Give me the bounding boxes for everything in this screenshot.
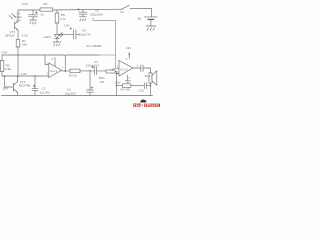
battery GB 9V	[138, 9, 158, 27]
resistor R2	[0, 55, 11, 76]
capacitor C1	[32, 76, 50, 96]
op-amp IC1-1	[46, 58, 64, 78]
svg-text:C10: C10	[138, 89, 144, 93]
svg-text:100µ/16V: 100µ/16V	[90, 13, 103, 17]
svg-text:.55V: .55V	[2, 86, 8, 90]
watermark red text	[133, 100, 160, 107]
capacitor C6	[15, 10, 38, 23]
wire pin4 ground	[125, 75, 130, 82]
wire output IC1-1 with resistor R3	[62, 69, 95, 77]
svg-text:6.3V: 6.3V	[22, 2, 28, 6]
svg-text:S1: S1	[120, 10, 124, 14]
wire V+ feed to IC1-2	[93, 18, 119, 69]
ground LED1	[53, 42, 61, 46]
resistor R5	[55, 10, 66, 34]
svg-text:1.4V: 1.4V	[21, 72, 27, 76]
capacitor C7 output	[133, 65, 151, 72]
svg-text:R6: R6	[44, 2, 48, 6]
svg-text:IC1-2: IC1-2	[121, 67, 128, 71]
wire pin6 +9V flag	[126, 46, 131, 61]
svg-text:IC1-1: IC1-1	[50, 69, 57, 73]
svg-text:1k: 1k	[41, 13, 45, 17]
svg-text:1.9V: 1.9V	[64, 24, 70, 28]
svg-text:4.5V: 4.5V	[1, 51, 7, 55]
svg-text:470k: 470k	[5, 67, 12, 71]
svg-text:3.2V: 3.2V	[22, 33, 28, 37]
svg-text:9V: 9V	[138, 17, 143, 21]
wire feedback net 4.5V	[2, 54, 116, 71]
transistor VT2	[4, 75, 30, 95]
svg-text:10k: 10k	[100, 80, 105, 84]
svg-text:4: 4	[129, 77, 131, 80]
resistor R6	[40, 2, 53, 17]
capacitor C4	[57, 27, 91, 38]
svg-text:100µ/10V: 100µ/10V	[86, 64, 99, 68]
ground C6	[30, 20, 37, 24]
op-amp IC1-2 LM386	[114, 60, 138, 84]
svg-text:2: 2	[46, 62, 48, 65]
capacitor C5	[78, 8, 103, 16]
ground battery	[146, 26, 156, 31]
capacitor C2	[65, 70, 94, 96]
svg-text:IC1-LM386: IC1-LM386	[86, 44, 102, 48]
svg-text:10k: 10k	[22, 43, 27, 47]
svg-text:6: 6	[126, 58, 128, 61]
potentiometer RP1	[99, 68, 117, 95]
svg-text:R4 47k: R4 47k	[121, 88, 131, 92]
svg-text:BC547B: BC547B	[19, 83, 30, 87]
svg-text:BP103: BP103	[6, 34, 15, 38]
resistor R1	[16, 30, 27, 76]
svg-text:5: 5	[137, 65, 139, 68]
svg-text:3: 3	[46, 73, 48, 76]
LED LED1	[44, 33, 64, 42]
wire zobel R4 C10	[116, 83, 152, 93]
speaker BL1	[145, 68, 157, 96]
svg-text:1µ/10V: 1µ/10V	[40, 90, 50, 94]
svg-text:+9V: +9V	[126, 46, 131, 50]
svg-text:8: 8	[52, 58, 54, 61]
svg-text:LED1: LED1	[44, 35, 52, 39]
svg-text:10µ/10V: 10µ/10V	[65, 92, 76, 96]
wire top rail	[18, 9, 152, 11]
wire input net 1.4V	[2, 75, 49, 77]
svg-text:BL1: BL1	[145, 74, 151, 78]
svg-text:4.7k: 4.7k	[60, 17, 66, 21]
svg-text:1: 1	[62, 67, 64, 70]
svg-text:10µ/6.3V: 10µ/6.3V	[79, 32, 91, 36]
switch S1	[120, 5, 131, 14]
svg-text:1.5V: 1.5V	[114, 81, 120, 85]
wire bottom rail	[2, 95, 153, 97]
ground C5	[80, 17, 87, 21]
phototransistor VT1	[6, 10, 19, 38]
svg-text:R3 1k: R3 1k	[69, 73, 77, 77]
capacitor C3	[86, 60, 106, 75]
